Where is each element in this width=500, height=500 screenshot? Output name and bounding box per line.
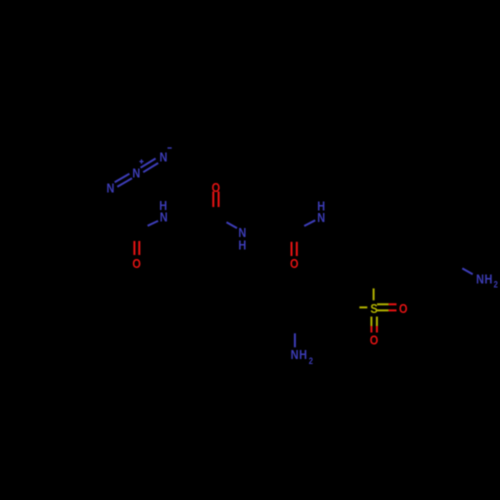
svg-text:N: N	[317, 210, 325, 225]
svg-text:N: N	[476, 272, 484, 287]
carbonyl C1=O1 double bond (red half)	[134, 241, 139, 255]
azide N1	[106, 180, 114, 195]
carbonyl C3=O3 double bond (red half)	[292, 242, 297, 256]
amide 2 N-H label	[238, 225, 246, 253]
double bond N2=N3	[141, 159, 159, 173]
carbonyl C2=O2 double bond (red half)	[213, 192, 218, 208]
svg-text:H: H	[299, 347, 307, 362]
wire C-NH2 right blue half	[462, 268, 472, 274]
wire S-C left yellow half	[359, 306, 367, 308]
amine NH2 right	[476, 272, 498, 290]
svg-text:H: H	[238, 238, 246, 253]
azide N3 (negative)	[159, 148, 171, 165]
wire C-NH2 bottom blue half	[294, 333, 296, 347]
oxygen O4 (right of S)	[399, 301, 407, 316]
wire C2-N(amide2) blue half	[227, 222, 238, 228]
oxygen O2	[212, 180, 220, 195]
wire N(amide1)-C1 blue half	[148, 221, 159, 226]
amine NH2 bottom	[291, 347, 314, 366]
svg-text:O: O	[290, 256, 298, 271]
svg-text:N: N	[160, 210, 168, 225]
double bond S=O right	[377, 304, 397, 310]
double bond S=O down	[371, 317, 377, 333]
svg-text:N: N	[132, 165, 140, 180]
svg-text:O: O	[399, 301, 407, 316]
svg-text:N: N	[159, 150, 167, 165]
svg-text:H: H	[484, 272, 492, 287]
wire S-C up yellow half	[373, 288, 375, 300]
svg-text:O: O	[132, 256, 140, 271]
oxygen O3	[290, 256, 298, 271]
svg-text:2: 2	[309, 355, 314, 366]
svg-text:O: O	[212, 180, 220, 195]
svg-text:S: S	[370, 301, 377, 316]
wire N(amide3)-C3 blue half	[304, 220, 315, 226]
azide N2 (positive)	[132, 159, 143, 180]
double bond N1=N2	[115, 174, 132, 187]
sulfur S	[370, 301, 377, 316]
amide 1 N-H label	[159, 198, 167, 225]
svg-text:O: O	[370, 332, 378, 347]
svg-text:N: N	[291, 347, 299, 362]
amide 3 H-N label	[317, 199, 325, 225]
oxygen O1	[132, 256, 140, 271]
svg-text:2: 2	[494, 279, 499, 290]
oxygen O5 (below S)	[370, 332, 378, 347]
svg-text:N: N	[106, 180, 114, 195]
